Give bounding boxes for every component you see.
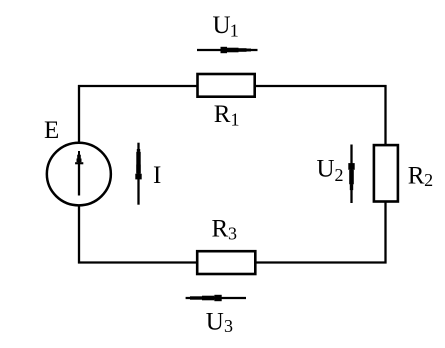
wire right upper (R2 top lead) (384, 85, 386, 145)
label R2 (408, 162, 433, 190)
arrow U3 (voltage arrow, points left) (186, 295, 246, 301)
svg-text:U: U (317, 156, 335, 183)
wire bottom-left segment (78, 261, 197, 263)
resistor R2 (374, 145, 398, 201)
source E circle (47, 143, 111, 206)
svg-text:U: U (213, 12, 231, 39)
label U1 (213, 12, 239, 41)
arrow U1 (voltage arrow, points right) (197, 47, 258, 53)
svg-text:E: E (44, 117, 59, 144)
arrow I (current arrow, points up) (135, 143, 141, 205)
svg-text:3: 3 (224, 316, 233, 336)
wire left lower (E bottom lead) (78, 205, 80, 264)
resistor R3 (197, 251, 255, 274)
svg-text:1: 1 (230, 21, 239, 41)
wire bottom-right segment (255, 261, 387, 263)
arrow U2 (voltage arrow, points down) (348, 145, 354, 204)
svg-text:1: 1 (231, 109, 240, 129)
svg-text:I: I (153, 162, 161, 189)
svg-text:R: R (408, 162, 425, 189)
svg-text:R: R (212, 216, 229, 243)
resistor R1 (198, 74, 255, 97)
svg-text:R: R (214, 101, 231, 128)
svg-text:U: U (206, 309, 224, 336)
label U2 (317, 156, 344, 185)
wire right lower (R2 bottom lead) (384, 202, 386, 264)
svg-text:3: 3 (228, 223, 237, 243)
wire top-right segment (255, 85, 387, 87)
wire left upper (E top lead) (78, 85, 80, 143)
label R3 (212, 216, 238, 244)
label U3 (206, 309, 233, 336)
svg-text:2: 2 (424, 170, 433, 190)
svg-text:2: 2 (335, 165, 344, 185)
source E internal arrow (75, 151, 83, 196)
wire top-left segment (78, 85, 197, 87)
label R1 (214, 101, 240, 129)
